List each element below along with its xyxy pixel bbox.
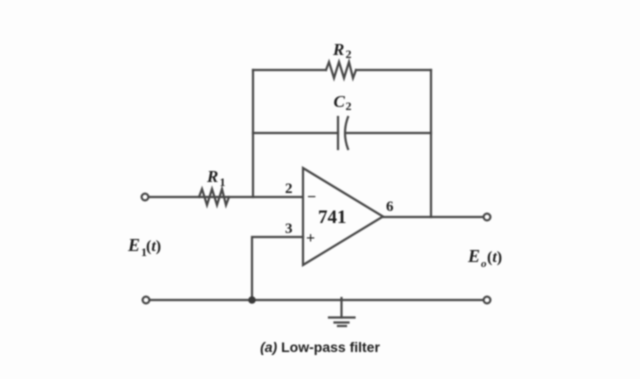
terminal input E1 (142, 194, 149, 201)
terminal output Eo (484, 214, 491, 221)
svg-text:1: 1 (220, 175, 226, 189)
op-amp U1 741 (303, 168, 383, 265)
wire right feedback vertical (430, 70, 432, 217)
svg-text:(t): (t) (146, 238, 161, 255)
resistor R1 (199, 189, 229, 205)
svg-text:(t): (t) (487, 249, 502, 266)
svg-text:2: 2 (346, 99, 352, 113)
ground (340, 298, 342, 318)
svg-text:6: 6 (386, 199, 394, 215)
svg-text:741: 741 (318, 207, 347, 228)
svg-text:2: 2 (346, 47, 352, 61)
svg-text:R: R (206, 167, 218, 186)
wire bottom rail (149, 299, 483, 301)
wire C2 branch left (253, 132, 338, 134)
svg-text:R: R (332, 40, 344, 59)
svg-text:(a) Low-pass filter: (a) Low-pass filter (260, 339, 380, 355)
node junction (248, 296, 256, 304)
svg-text:C: C (334, 92, 346, 111)
wire output (383, 216, 483, 218)
svg-text:2: 2 (285, 181, 293, 197)
svg-text:−: − (307, 189, 316, 206)
svg-text:3: 3 (285, 221, 293, 237)
svg-text:E: E (467, 246, 480, 266)
resistor R2 (326, 62, 356, 78)
wire top feedback (R2 branch) (253, 69, 326, 71)
svg-text:E: E (127, 235, 140, 255)
svg-text:+: + (306, 230, 315, 247)
wire left feedback vertical (252, 70, 254, 197)
terminal bottom left (143, 297, 150, 304)
wire input to op-amp (149, 196, 303, 198)
terminal bottom right (484, 297, 491, 304)
capacitor C2 (337, 117, 339, 149)
wire C2 branch right (346, 132, 431, 134)
wire pin3 (252, 237, 303, 300)
